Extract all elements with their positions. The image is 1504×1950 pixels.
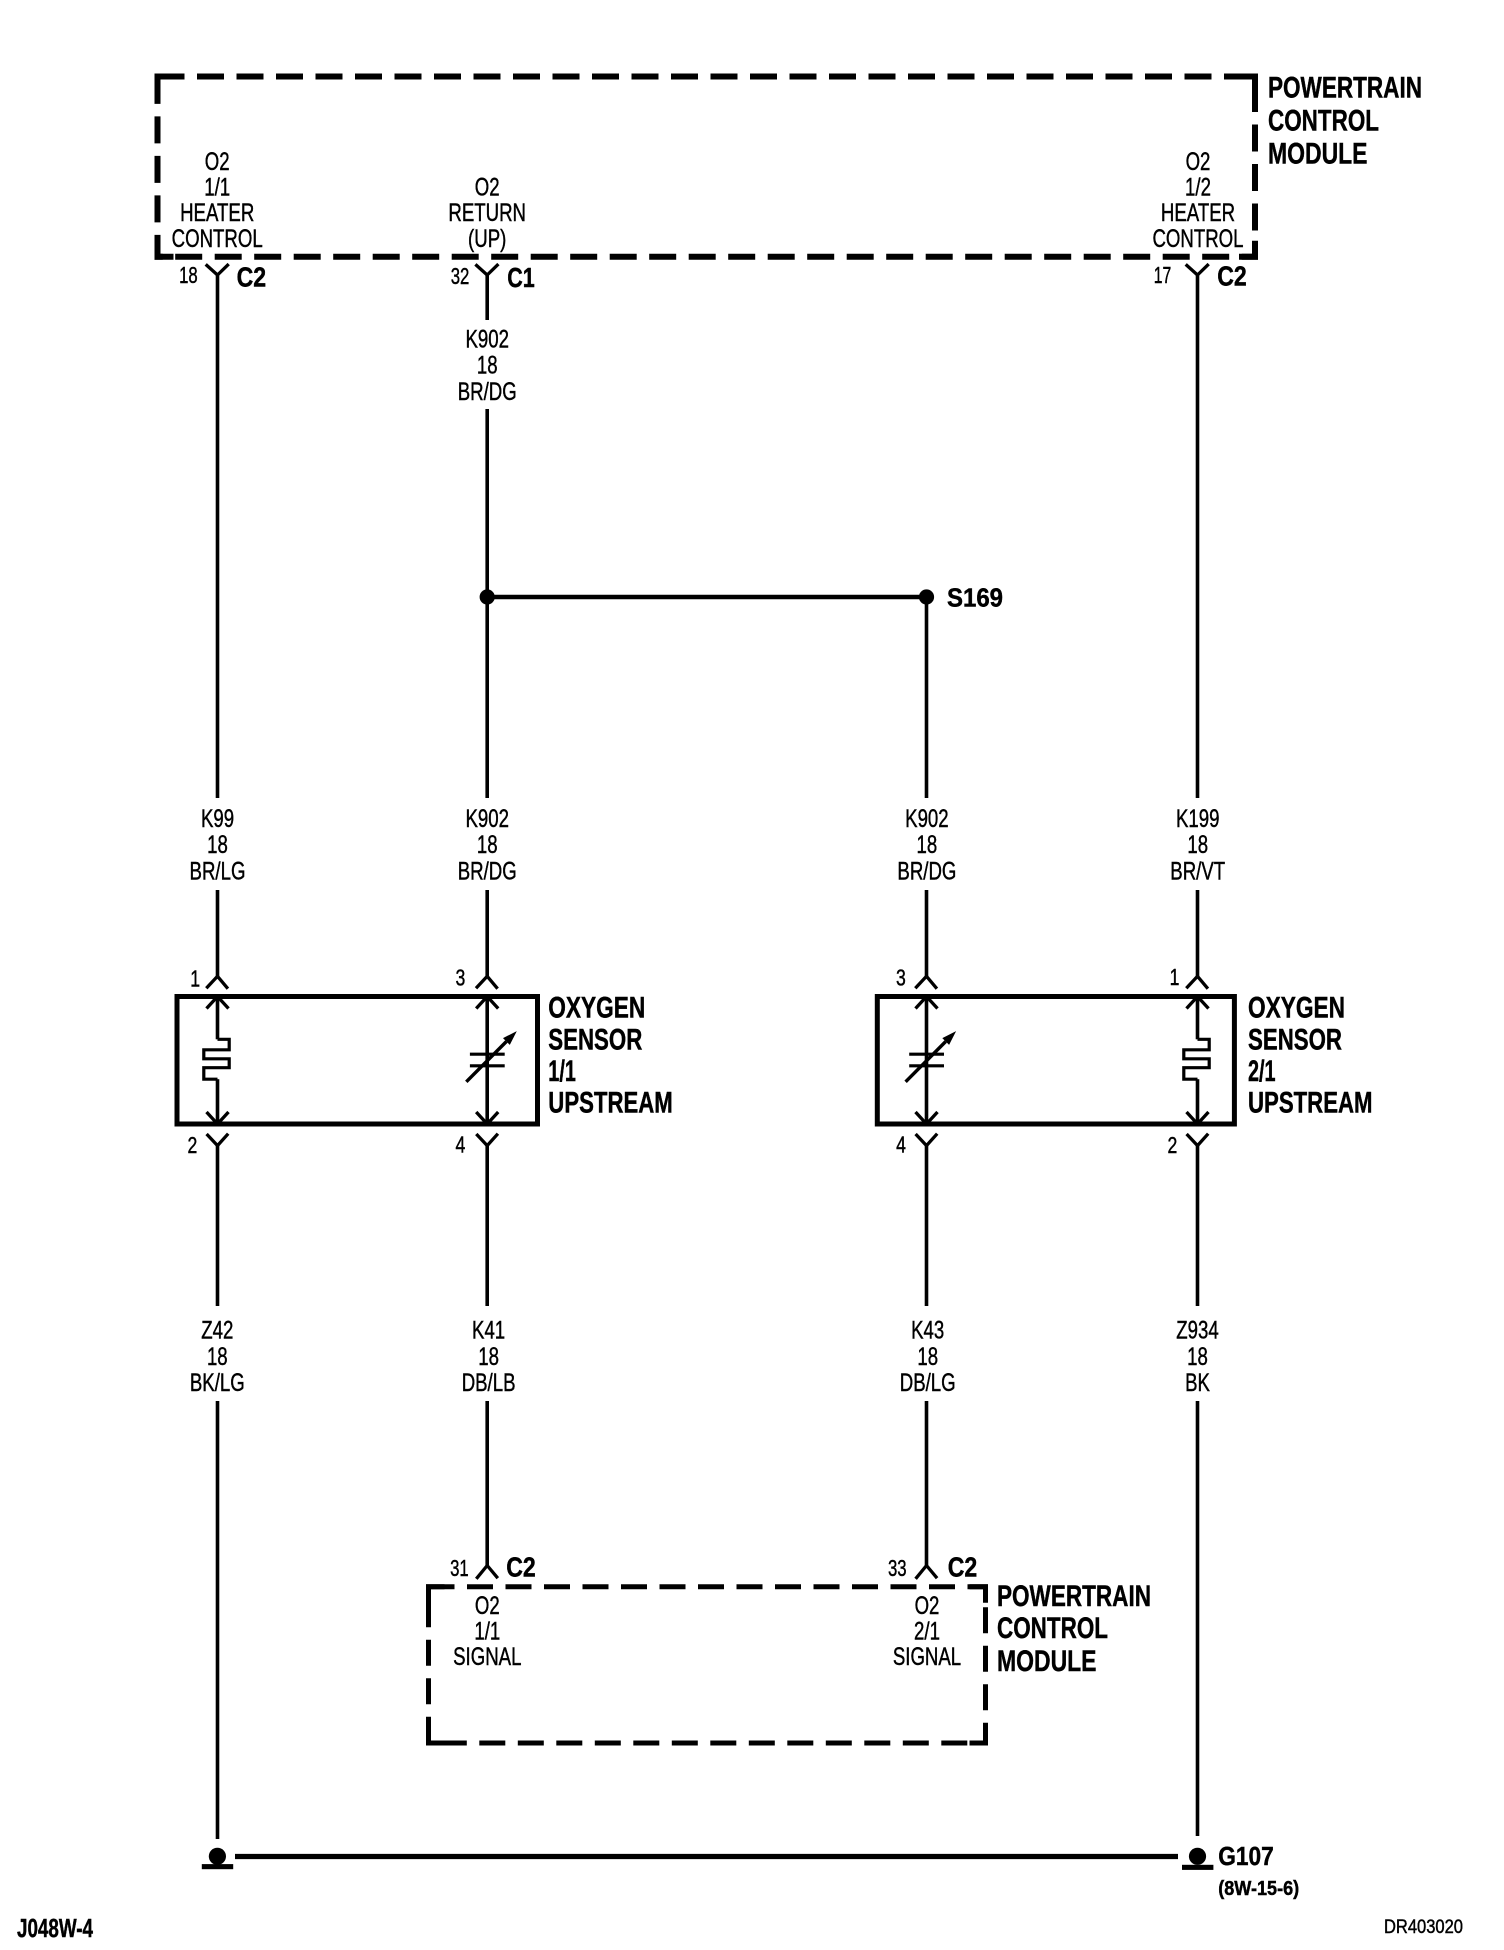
svg-text:17: 17: [1154, 262, 1172, 288]
svg-text:UPSTREAM: UPSTREAM: [1248, 1087, 1373, 1120]
svg-text:2: 2: [1168, 1132, 1178, 1158]
svg-text:18: 18: [917, 831, 938, 859]
svg-text:POWERTRAIN: POWERTRAIN: [1268, 72, 1422, 105]
svg-text:2/1: 2/1: [1248, 1055, 1276, 1088]
svg-text:K902: K902: [465, 805, 509, 833]
svg-text:SIGNAL: SIGNAL: [453, 1643, 521, 1671]
svg-text:18: 18: [477, 831, 498, 859]
svg-text:K43: K43: [911, 1317, 944, 1345]
svg-text:(UP): (UP): [468, 225, 506, 253]
svg-text:BR/DG: BR/DG: [458, 858, 517, 886]
svg-text:SENSOR: SENSOR: [1248, 1023, 1342, 1056]
svg-text:UPSTREAM: UPSTREAM: [548, 1087, 673, 1120]
svg-text:OXYGEN: OXYGEN: [548, 992, 645, 1025]
svg-text:18: 18: [1187, 831, 1208, 859]
svg-text:HEATER: HEATER: [1161, 199, 1235, 227]
svg-text:18: 18: [207, 1343, 228, 1371]
svg-text:1/1: 1/1: [548, 1055, 576, 1088]
svg-text:C2: C2: [506, 1552, 536, 1583]
svg-text:3: 3: [896, 964, 906, 990]
svg-text:O2: O2: [1186, 148, 1211, 176]
svg-text:O2: O2: [475, 1592, 500, 1620]
svg-text:G107: G107: [1218, 1841, 1274, 1871]
svg-text:HEATER: HEATER: [180, 199, 254, 227]
svg-text:2: 2: [188, 1132, 198, 1158]
svg-text:32: 32: [451, 263, 470, 289]
svg-text:1/1: 1/1: [474, 1618, 500, 1646]
svg-text:3: 3: [456, 964, 466, 990]
svg-text:18: 18: [1187, 1343, 1208, 1371]
svg-text:BR/LG: BR/LG: [190, 858, 246, 886]
svg-text:Z934: Z934: [1176, 1317, 1218, 1345]
svg-text:1/2: 1/2: [1185, 174, 1211, 202]
svg-text:K902: K902: [465, 325, 509, 353]
svg-text:MODULE: MODULE: [1268, 137, 1368, 170]
svg-text:4: 4: [456, 1131, 466, 1157]
svg-text:S169: S169: [947, 582, 1003, 612]
svg-text:K902: K902: [905, 805, 949, 833]
svg-text:CONTROL: CONTROL: [1268, 105, 1379, 138]
svg-text:CONTROL: CONTROL: [997, 1612, 1108, 1645]
svg-text:CONTROL: CONTROL: [172, 225, 263, 253]
svg-text:18: 18: [207, 831, 228, 859]
svg-text:DB/LG: DB/LG: [900, 1369, 956, 1397]
svg-text:31: 31: [450, 1555, 469, 1581]
svg-text:BR/DG: BR/DG: [458, 378, 517, 406]
svg-text:K199: K199: [1176, 805, 1220, 833]
svg-text:C2: C2: [1217, 261, 1247, 292]
svg-text:BK/LG: BK/LG: [190, 1369, 245, 1397]
svg-text:18: 18: [477, 352, 498, 380]
svg-text:BK: BK: [1185, 1369, 1210, 1397]
svg-text:K41: K41: [472, 1317, 505, 1345]
svg-text:C2: C2: [948, 1552, 978, 1583]
svg-text:C2: C2: [237, 261, 267, 292]
svg-text:33: 33: [888, 1555, 907, 1581]
svg-text:18: 18: [179, 262, 198, 288]
svg-text:Z42: Z42: [201, 1317, 233, 1345]
svg-text:OXYGEN: OXYGEN: [1248, 992, 1345, 1025]
svg-text:RETURN: RETURN: [448, 199, 526, 227]
svg-text:18: 18: [478, 1343, 499, 1371]
svg-text:(8W-15-6): (8W-15-6): [1218, 1878, 1299, 1900]
svg-text:CONTROL: CONTROL: [1152, 225, 1243, 253]
svg-text:18: 18: [917, 1343, 938, 1371]
svg-text:2/1: 2/1: [914, 1618, 940, 1646]
svg-text:1: 1: [1170, 964, 1180, 990]
svg-text:SIGNAL: SIGNAL: [893, 1643, 961, 1671]
svg-text:C1: C1: [507, 262, 535, 293]
svg-text:BR/VT: BR/VT: [1170, 858, 1225, 886]
svg-text:4: 4: [896, 1131, 906, 1157]
svg-text:BR/DG: BR/DG: [897, 858, 956, 886]
svg-text:1: 1: [190, 966, 200, 992]
svg-text:DR403020: DR403020: [1384, 1917, 1463, 1938]
svg-text:MODULE: MODULE: [997, 1645, 1097, 1678]
svg-text:O2: O2: [205, 148, 230, 176]
svg-text:O2: O2: [475, 173, 500, 201]
svg-text:SENSOR: SENSOR: [548, 1023, 642, 1056]
svg-text:POWERTRAIN: POWERTRAIN: [997, 1580, 1151, 1613]
svg-text:J048W-4: J048W-4: [17, 1913, 93, 1943]
svg-text:K99: K99: [201, 805, 234, 833]
svg-text:DB/LB: DB/LB: [462, 1369, 516, 1397]
svg-text:O2: O2: [915, 1592, 940, 1620]
svg-text:1/1: 1/1: [204, 174, 230, 202]
